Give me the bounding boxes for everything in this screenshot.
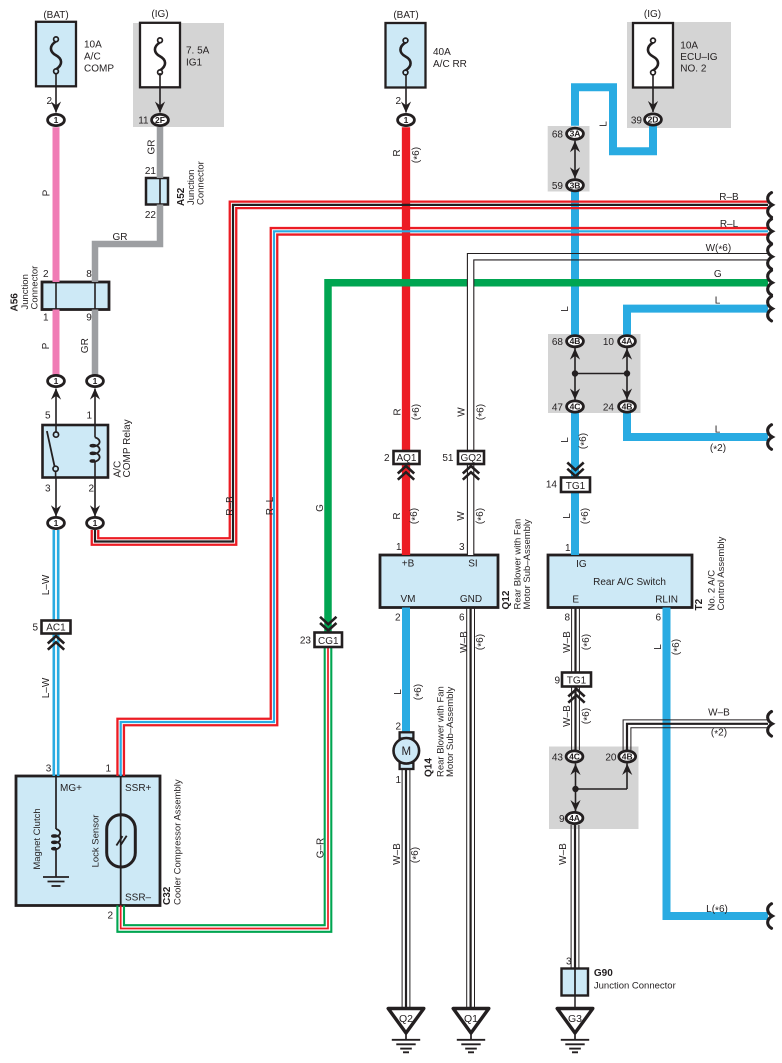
svg-text:47: 47 [552, 403, 564, 414]
svg-text:2D: 2D [648, 115, 659, 125]
svg-text:TG1: TG1 [566, 481, 586, 492]
svg-text:Junction Connector: Junction Connector [594, 981, 676, 992]
svg-text:P: P [42, 189, 53, 196]
svg-text:43: 43 [552, 753, 564, 764]
svg-text:24: 24 [603, 403, 615, 414]
svg-text:M: M [402, 746, 412, 758]
svg-text:Magnet Clutch: Magnet Clutch [32, 808, 43, 869]
svg-text:3B: 3B [570, 180, 581, 190]
svg-text:G90: G90 [594, 968, 613, 979]
svg-text:(*2): (*2) [710, 443, 726, 455]
svg-text:(IG): (IG) [644, 9, 661, 20]
svg-text:GND: GND [460, 594, 482, 605]
svg-text:IG1: IG1 [186, 58, 203, 69]
svg-text:39: 39 [631, 116, 643, 127]
svg-text:1: 1 [54, 518, 59, 528]
svg-text:ECU–IG: ECU–IG [680, 52, 717, 63]
svg-text:7. 5A: 7. 5A [186, 46, 210, 57]
svg-text:4A: 4A [622, 336, 633, 346]
svg-text:P: P [41, 342, 52, 349]
svg-text:(*6): (*6) [413, 684, 425, 700]
svg-text:G–R: G–R [316, 838, 327, 859]
svg-text:(*2): (*2) [711, 728, 727, 740]
svg-text:G: G [714, 269, 722, 280]
svg-text:L: L [653, 644, 664, 650]
svg-text:NO. 2: NO. 2 [680, 63, 707, 74]
svg-text:L: L [393, 689, 404, 695]
svg-text:(*6): (*6) [476, 404, 488, 420]
svg-text:RLIN: RLIN [655, 595, 678, 606]
svg-text:T2: T2 [694, 598, 705, 610]
svg-text:(*6): (*6) [578, 433, 590, 449]
svg-text:1: 1 [396, 542, 402, 553]
svg-text:(*6): (*6) [671, 639, 683, 655]
svg-text:(*6): (*6) [409, 508, 421, 524]
svg-text:68: 68 [552, 337, 564, 348]
svg-text:1: 1 [395, 775, 401, 786]
svg-text:AQ1: AQ1 [396, 453, 416, 464]
svg-text:W–B: W–B [392, 843, 403, 865]
svg-text:GR: GR [146, 140, 157, 155]
svg-text:GR: GR [80, 338, 91, 353]
svg-text:CG1: CG1 [318, 636, 339, 647]
svg-text:(BAT): (BAT) [43, 10, 68, 21]
svg-text:9: 9 [554, 676, 560, 687]
svg-text:VM: VM [401, 594, 416, 605]
svg-text:R: R [393, 408, 404, 415]
svg-text:(*6): (*6) [475, 508, 487, 524]
svg-text:4C: 4C [569, 752, 580, 762]
svg-text:23: 23 [300, 636, 312, 647]
svg-text:1: 1 [93, 376, 98, 386]
svg-text:R–B: R–B [719, 192, 739, 203]
svg-text:Q1: Q1 [464, 1013, 478, 1025]
svg-text:1: 1 [54, 376, 59, 386]
svg-text:Q12: Q12 [501, 590, 512, 609]
svg-text:3: 3 [46, 764, 52, 775]
svg-text:20: 20 [605, 753, 617, 764]
svg-text:Motor Sub–Assembly: Motor Sub–Assembly [522, 519, 533, 610]
svg-text:COMP Relay: COMP Relay [122, 419, 133, 477]
svg-text:1: 1 [93, 518, 98, 528]
svg-text:4B: 4B [622, 752, 633, 762]
svg-text:(*6): (*6) [581, 634, 593, 650]
svg-text:L–W: L–W [41, 677, 52, 698]
svg-text:G: G [315, 504, 326, 512]
svg-text:W(*6): W(*6) [706, 243, 732, 255]
svg-text:E: E [572, 595, 579, 606]
svg-text:W: W [457, 407, 468, 417]
svg-text:SSR–: SSR– [125, 893, 152, 904]
svg-text:MG+: MG+ [60, 783, 82, 794]
svg-text:1: 1 [565, 543, 571, 554]
svg-text:(*6): (*6) [410, 847, 422, 863]
svg-text:51: 51 [442, 453, 454, 464]
svg-text:1: 1 [404, 115, 409, 125]
svg-text:21: 21 [145, 166, 157, 177]
svg-text:SI: SI [468, 559, 477, 570]
svg-text:6: 6 [459, 613, 465, 624]
svg-text:3: 3 [459, 542, 465, 553]
svg-text:(*6): (*6) [411, 147, 423, 163]
svg-text:11: 11 [138, 116, 149, 127]
svg-text:2: 2 [395, 613, 401, 624]
svg-text:L: L [560, 437, 571, 443]
svg-text:SSR+: SSR+ [125, 783, 152, 794]
svg-text:C32: C32 [162, 886, 173, 905]
svg-text:(*6): (*6) [580, 508, 592, 524]
svg-text:Lock Sensor: Lock Sensor [91, 815, 102, 868]
svg-text:W–B: W–B [558, 843, 569, 865]
svg-text:2: 2 [88, 484, 94, 495]
svg-text:R–B: R–B [225, 496, 236, 516]
svg-text:W–B: W–B [562, 631, 573, 653]
svg-text:W–B: W–B [459, 631, 470, 653]
svg-text:A56: A56 [10, 293, 21, 312]
svg-text:L: L [560, 306, 571, 312]
svg-text:2: 2 [384, 453, 390, 464]
svg-text:9: 9 [559, 814, 565, 825]
svg-text:9: 9 [86, 313, 92, 324]
svg-text:L(*6): L(*6) [706, 904, 728, 916]
svg-text:W–B: W–B [562, 705, 573, 727]
svg-text:8: 8 [86, 269, 92, 280]
svg-text:Cooler Compressor Assembly: Cooler Compressor Assembly [173, 779, 184, 905]
svg-text:10A: 10A [680, 41, 698, 52]
svg-text:(*6): (*6) [475, 634, 487, 650]
svg-text:1: 1 [86, 411, 92, 422]
svg-text:2: 2 [107, 911, 113, 922]
svg-text:68: 68 [552, 130, 564, 141]
svg-text:1: 1 [54, 115, 59, 125]
svg-text:(BAT): (BAT) [393, 10, 418, 21]
svg-text:Connector: Connector [30, 266, 41, 310]
svg-text:G3: G3 [568, 1013, 582, 1025]
svg-text:Q2: Q2 [399, 1013, 413, 1025]
svg-text:AC1: AC1 [46, 623, 66, 634]
svg-text:L: L [599, 121, 610, 127]
svg-text:8: 8 [564, 613, 570, 624]
svg-text:(*6): (*6) [581, 708, 593, 724]
svg-text:(*6): (*6) [411, 404, 423, 420]
svg-text:TG1: TG1 [567, 676, 587, 687]
svg-text:Connector: Connector [195, 161, 206, 205]
svg-text:2: 2 [46, 96, 52, 107]
svg-text:L: L [562, 513, 573, 519]
svg-text:W: W [456, 511, 467, 521]
svg-text:2: 2 [43, 269, 49, 280]
svg-text:3: 3 [566, 957, 572, 968]
svg-text:R–L: R–L [265, 496, 276, 515]
svg-text:6: 6 [655, 613, 661, 624]
svg-text:4A: 4A [569, 813, 580, 823]
svg-text:+B: +B [402, 559, 415, 570]
svg-text:2: 2 [395, 96, 401, 107]
svg-text:Q14: Q14 [424, 758, 435, 777]
svg-text:10A: 10A [84, 40, 102, 51]
svg-text:10: 10 [603, 337, 615, 348]
svg-text:2F: 2F [155, 115, 165, 125]
svg-text:1: 1 [105, 764, 111, 775]
svg-text:A/C: A/C [84, 52, 101, 63]
svg-text:3: 3 [45, 484, 51, 495]
svg-text:R–L: R–L [720, 219, 739, 230]
svg-text:22: 22 [145, 210, 157, 221]
svg-text:W–B: W–B [708, 707, 730, 718]
svg-text:1: 1 [43, 313, 49, 324]
svg-text:4B: 4B [622, 402, 633, 412]
svg-text:A/C RR: A/C RR [433, 59, 467, 70]
svg-text:2: 2 [395, 722, 401, 733]
svg-text:14: 14 [546, 480, 558, 491]
svg-text:IG: IG [576, 559, 587, 570]
svg-text:L: L [715, 424, 721, 435]
svg-text:Motor Sub–Assembly: Motor Sub–Assembly [445, 686, 456, 777]
svg-text:3A: 3A [570, 129, 581, 139]
svg-text:GQ2: GQ2 [460, 453, 482, 464]
svg-text:R: R [392, 149, 403, 156]
svg-text:GR: GR [113, 232, 128, 243]
svg-text:R: R [392, 512, 403, 519]
svg-text:Rear A/C Switch: Rear A/C Switch [593, 577, 666, 588]
svg-text:L: L [715, 295, 721, 306]
svg-text:5: 5 [32, 623, 38, 634]
svg-text:4C: 4C [570, 402, 581, 412]
svg-text:5: 5 [45, 411, 51, 422]
svg-text:59: 59 [552, 181, 564, 192]
svg-text:Control Assembly: Control Assembly [716, 536, 727, 610]
svg-text:4B: 4B [570, 336, 581, 346]
svg-text:(IG): (IG) [151, 9, 168, 20]
svg-text:COMP: COMP [84, 64, 114, 75]
svg-text:40A: 40A [433, 47, 451, 58]
svg-text:L–W: L–W [41, 574, 52, 595]
